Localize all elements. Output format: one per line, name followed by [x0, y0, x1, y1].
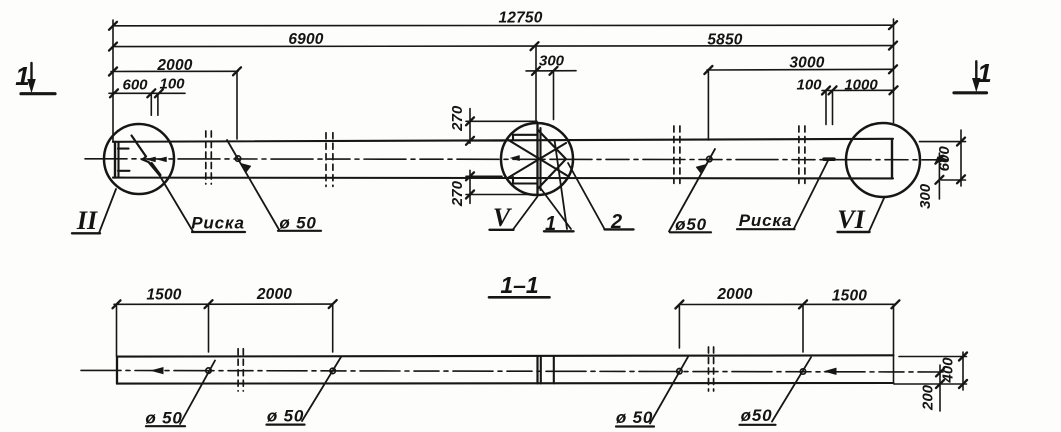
dim line 270 bottom [469, 170, 471, 203]
beam left end (section) [116, 357, 118, 384]
dashed pair section right [708, 347, 710, 391]
svg-text:400: 400 [940, 357, 957, 384]
beam centerline (section) [81, 370, 943, 372]
leader V [513, 197, 538, 230]
extension line 2000 [236, 72, 238, 139]
ticks 600-100 [110, 89, 118, 97]
svg-text:2: 2 [610, 211, 622, 233]
joint step top [513, 135, 538, 140]
ext 400 top [899, 356, 967, 358]
leader phi50 right arrowhead [696, 165, 706, 174]
svg-text:1: 1 [977, 58, 991, 88]
ext 270 bottom upper [466, 175, 502, 177]
ticks 1500-2000 left [113, 300, 121, 308]
leader 1b [555, 140, 568, 229]
underline VI [838, 231, 870, 233]
dim line 300 mid [526, 70, 576, 72]
underline 1 [544, 230, 574, 232]
hole phi50 s1 [206, 368, 211, 373]
detail circle II (left) [104, 124, 174, 194]
svg-text:300: 300 [539, 53, 565, 70]
svg-text:ø 50: ø 50 [267, 407, 304, 426]
svg-text:1500: 1500 [832, 288, 867, 305]
underline 2 [605, 228, 634, 230]
riska mark right (bold tick) [824, 157, 834, 161]
title underline [489, 296, 550, 299]
extension line right main [893, 19, 895, 123]
extension line 100 left [157, 95, 159, 115]
underline II [72, 232, 100, 234]
extension line 300 mid b [553, 71, 555, 120]
hole phi50 right (plan) [707, 156, 712, 161]
extension line 300 mid a [535, 47, 537, 123]
riska diagonal mark lower [149, 162, 160, 175]
joint step bottom [513, 177, 538, 184]
dim line 3000 [707, 68, 893, 71]
dim line 2000 [111, 70, 238, 72]
dim line 600 right [960, 130, 962, 186]
svg-text:ø50: ø50 [675, 215, 707, 234]
dim line 300 right [938, 153, 940, 199]
svg-text:5850: 5850 [707, 32, 742, 49]
beam left end double line [114, 142, 116, 178]
svg-text:12750: 12750 [498, 10, 542, 27]
section marker 1 top-left arrowhead [28, 80, 35, 92]
svg-text:1–1: 1–1 [500, 272, 538, 298]
centerline arrow a [147, 157, 156, 162]
section marker 1 top-right arrowhead [973, 79, 980, 91]
ext s2 [208, 304, 210, 352]
dim line 100-1000 [822, 89, 893, 91]
dim line 200 [939, 365, 941, 411]
svg-text:1: 1 [15, 61, 29, 91]
underline phi50 right [670, 231, 711, 233]
hole phi50 left (plan) [235, 156, 240, 161]
ext s5 [802, 305, 804, 353]
leader phi50 s4 [772, 357, 811, 421]
riska jog [143, 157, 149, 163]
leader VI [869, 197, 885, 232]
svg-text:600: 600 [936, 146, 953, 172]
leader II [99, 189, 116, 233]
svg-text:ø50: ø50 [741, 406, 773, 425]
svg-text:ø 50: ø 50 [279, 214, 316, 233]
riska arrow right (section) [825, 368, 836, 374]
beam bottom edge (plan view) [113, 177, 893, 180]
dashed pair section left [238, 347, 713, 391]
dim line 6900 / 5850 [113, 46, 893, 47]
ext s3 [332, 304, 334, 352]
joint line c (section) [553, 356, 555, 383]
extension line 600 [150, 94, 152, 115]
extension line left main [112, 20, 114, 142]
section marker 1 top-right arrow stem [975, 61, 977, 80]
dim line 400 [962, 352, 964, 390]
ticks 600 right [957, 138, 965, 146]
hole phi50 s3 [677, 369, 682, 374]
beam centerline (plan view) [85, 159, 947, 160]
svg-text:6900: 6900 [288, 31, 323, 48]
underline phi50 s4 [740, 424, 776, 426]
riska diagonal mark upper [132, 136, 147, 157]
svg-text:1: 1 [545, 213, 556, 235]
leader 2 [568, 163, 605, 229]
leader phi50 left [227, 140, 280, 231]
svg-text:Риска: Риска [191, 214, 244, 233]
ticks 3000 [704, 66, 712, 74]
extension line 100 right b [832, 92, 834, 125]
svg-text:ø 50: ø 50 [145, 409, 182, 428]
joint line b (section) [540, 356, 542, 383]
lifting point dashed pair 2 [325, 133, 327, 187]
joint X diagonal b [509, 143, 567, 178]
underline phi50 s1 [146, 425, 185, 427]
svg-text:300: 300 [917, 183, 934, 209]
extension line 3000 [707, 70, 709, 140]
ext 270 top lower [466, 140, 503, 142]
ticks 2000-1500 right [675, 301, 683, 309]
dim line 1500-2000 left [114, 303, 333, 305]
ext 270 top upper [466, 120, 537, 122]
ticks 100-1000 [822, 87, 830, 95]
ext 600 right top [920, 141, 966, 143]
hole phi50 s4 [800, 369, 805, 374]
dimensions bottom view [114, 304, 967, 411]
ticks 6900-5850 [109, 43, 117, 51]
left end inner flange tick top [118, 148, 129, 150]
ext left end (section) [116, 304, 118, 356]
lifting point dashed pair 4 [798, 126, 800, 183]
section marker 1 top-left bar [21, 92, 55, 95]
dimension texts plan view [122, 10, 953, 209]
beam top edge (section) [117, 355, 894, 356]
underline V [490, 229, 514, 231]
ext right end (section) [893, 304, 895, 383]
lifting point dashed pair 1 [206, 126, 805, 186]
joint triangle (right-pointing) [538, 130, 567, 190]
svg-text:II: II [76, 206, 98, 235]
lifting point dashed pair 3 [673, 126, 675, 183]
ext 600/300 right bottom [942, 179, 966, 181]
detail circle VI (right) [846, 123, 920, 197]
beam right end line [891, 140, 893, 178]
ticks 270 top [466, 117, 474, 125]
ticks 400 [959, 353, 967, 361]
svg-text:2000: 2000 [256, 286, 292, 303]
svg-text:VI: VI [837, 205, 865, 234]
leader phi50 s2 [302, 357, 341, 421]
ticks 12750 [109, 22, 117, 30]
ticks 2000 [109, 68, 117, 76]
ticks 270 bottom [466, 172, 474, 180]
svg-text:2000: 2000 [716, 286, 752, 303]
section marker 1 top-right bar [954, 91, 987, 94]
leader Riska right [794, 161, 828, 229]
svg-text:Риска: Риска [739, 211, 792, 230]
svg-text:600: 600 [122, 77, 148, 94]
riska arrow left (section) [152, 368, 163, 374]
left end inner flange tick bottom [118, 170, 130, 172]
dim line 270 top [469, 109, 471, 144]
dim line 12750 [113, 24, 893, 27]
dim line 2000-1500 right [679, 303, 895, 305]
beam top edge (plan view) [113, 139, 893, 142]
leader phi50 left arrowhead [242, 164, 252, 173]
centerline arrow b [158, 157, 167, 162]
ext s4 [678, 305, 680, 349]
underline phi50 s3 [616, 425, 654, 427]
leader phi50 s1 [180, 361, 215, 425]
joint double vertical line (middle) [536, 124, 538, 195]
beam bottom edge (section) [117, 382, 894, 385]
svg-text:2000: 2000 [156, 57, 192, 74]
svg-text:200: 200 [920, 384, 937, 411]
ext 270 bottom lower [466, 194, 536, 196]
underline phi50 s2 [267, 424, 305, 426]
svg-text:100: 100 [159, 76, 185, 93]
svg-text:100: 100 [796, 77, 822, 94]
svg-text:1500: 1500 [146, 287, 181, 304]
ticks 200 [936, 368, 944, 376]
joint X diagonal a [508, 140, 568, 176]
svg-text:ø 50: ø 50 [616, 408, 653, 427]
svg-text:1000: 1000 [844, 77, 878, 94]
underline Riska right [737, 228, 795, 230]
leader 1a [540, 188, 571, 230]
joint left arrow [511, 155, 520, 160]
underline Riska left [192, 231, 245, 233]
riska parallel stroke [152, 164, 161, 176]
ext 400/200 bottom [894, 383, 967, 385]
centerline extension to 300 dim with arrow [936, 157, 947, 162]
hole phi50 s2 [330, 368, 335, 373]
leaders and labels bottom view [146, 357, 811, 427]
underline phi50 left [278, 230, 321, 232]
svg-text:3000: 3000 [789, 55, 824, 72]
joint line a (section) [536, 356, 538, 383]
svg-text:270: 270 [449, 180, 466, 207]
dim line 600-100 [109, 92, 185, 94]
ticks 300 right [935, 156, 943, 164]
extension line 100 right a [825, 92, 827, 125]
detail circle V (middle) [501, 123, 573, 195]
leader Riska left [159, 175, 193, 232]
leader phi50 right [669, 149, 715, 232]
leader phi50 s3 [650, 357, 688, 424]
svg-text:270: 270 [449, 105, 466, 132]
ticks 300 mid [532, 67, 540, 75]
section marker 1 top-left arrow stem [30, 63, 32, 82]
dimension tick slashes plan view [109, 21, 965, 198]
svg-text:V: V [493, 203, 513, 232]
